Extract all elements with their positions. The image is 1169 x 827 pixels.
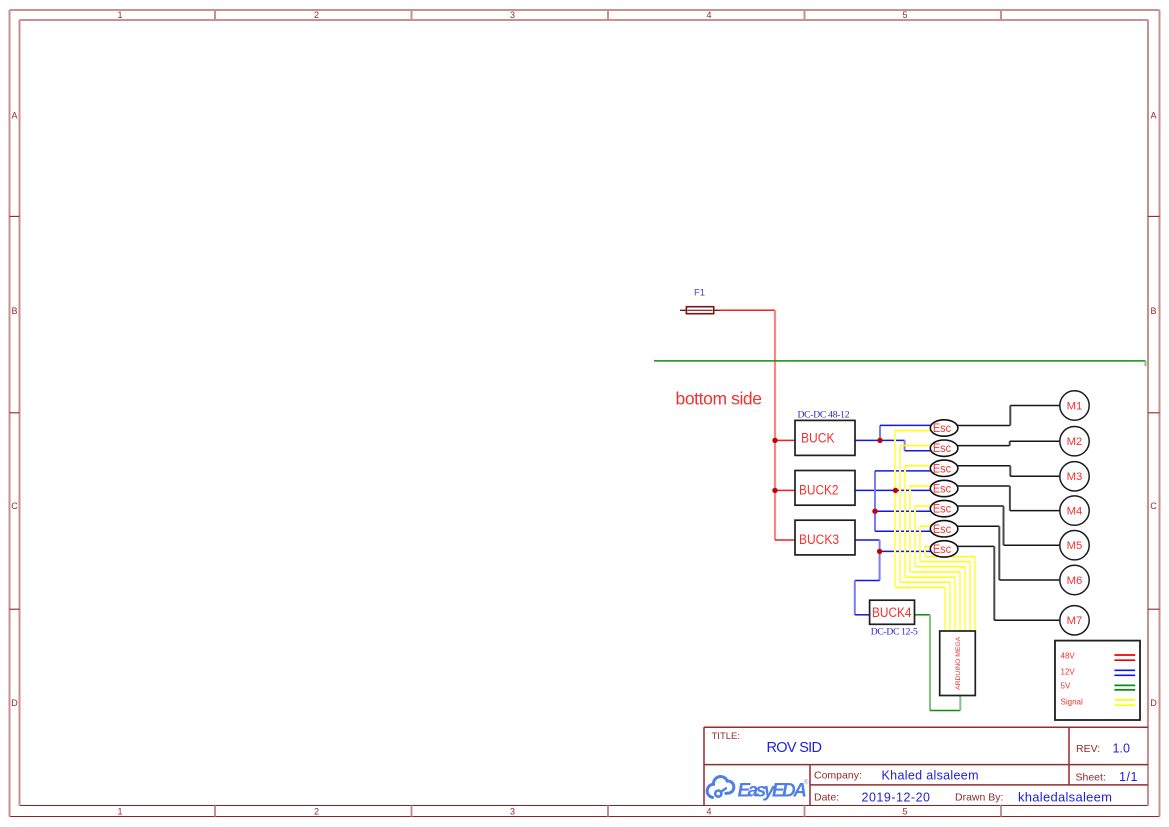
svg-text:Esc: Esc [933, 421, 951, 435]
svg-text:BUCK4: BUCK4 [872, 605, 912, 620]
svg-text:EasyEDA: EasyEDA [738, 781, 808, 802]
svg-text:BUCK2: BUCK2 [799, 483, 839, 498]
motor M7 [1060, 606, 1089, 635]
wire ESC2 to motor M2 [944, 441, 1060, 445]
svg-text:F1: F1 [694, 288, 705, 299]
svg-text:M6: M6 [1067, 575, 1083, 587]
ESC6 [930, 521, 958, 537]
wire signal S2 Arduino to ESC2 [900, 446, 950, 631]
svg-text:M5: M5 [1067, 540, 1083, 552]
converter BUCK4 [870, 600, 915, 624]
svg-text:Esc: Esc [933, 461, 951, 475]
microcontroller ARDUINO MEGA [940, 631, 976, 696]
svg-text:4: 4 [706, 807, 711, 817]
net wire green bus (top side) [654, 361, 1146, 366]
motor M1 [1060, 391, 1089, 420]
legend entry 12V [1061, 668, 1136, 677]
ESC4 [930, 480, 958, 496]
motor M4 [1060, 496, 1089, 525]
wire signal S4 Arduino to ESC4 [910, 486, 960, 631]
wire 12V branch to ESC5 [875, 510, 930, 512]
junction on 48V at BUCK2 input [772, 488, 777, 493]
svg-text:B: B [11, 306, 17, 316]
svg-text:1.0: 1.0 [1113, 742, 1131, 756]
wire 12V BUCK output [855, 439, 880, 441]
svg-text:12V: 12V [1061, 668, 1076, 677]
logo EasyEDA [707, 776, 809, 801]
svg-text:48V: 48V [1061, 652, 1076, 661]
converter BUCK2 [795, 471, 855, 506]
fuse F1 [680, 307, 720, 314]
junction 12V on BUCK2 line [893, 488, 898, 493]
svg-text:2019-12-20: 2019-12-20 [862, 791, 931, 805]
svg-text:1/1: 1/1 [1119, 770, 1138, 784]
svg-text:Signal: Signal [1061, 698, 1083, 707]
ESC2 [930, 440, 958, 456]
junction 12V to ESC7 [877, 549, 882, 554]
svg-text:Esc: Esc [933, 542, 951, 556]
svg-text:REV:: REV: [1076, 743, 1100, 755]
svg-text:Esc: Esc [933, 522, 951, 536]
wire 12V branch to ESC7 [880, 550, 931, 552]
wire ESC7 to motor M7 [944, 546, 1060, 620]
ESC5 [930, 500, 958, 516]
ESC3 [930, 460, 958, 476]
svg-text:Esc: Esc [933, 441, 951, 455]
wire signal S1 Arduino to ESC1 [895, 431, 945, 631]
svg-text:Date:: Date: [814, 792, 839, 804]
wire signal S3 Arduino to ESC3 [905, 466, 955, 631]
svg-text:1: 1 [117, 807, 122, 817]
wire ESC4 to motor M4 [944, 486, 1060, 511]
svg-text:Drawn By:: Drawn By: [955, 792, 1003, 804]
wire 12V down to BUCK4 input [855, 581, 880, 615]
legend entry Signal [1061, 698, 1136, 707]
svg-text:ROV SID: ROV SID [767, 740, 823, 756]
svg-text:M3: M3 [1067, 471, 1083, 483]
wire 12V branch to ESC6 [875, 530, 930, 532]
wire 48V from fuse to corner [720, 309, 776, 311]
wire signal S6 Arduino to ESC6 [920, 526, 970, 631]
svg-text:C: C [11, 501, 18, 511]
wire 12V BUCK2 output to ESC4 [855, 489, 930, 491]
motor M5 [1060, 531, 1089, 560]
wire 48V into BUCK2 [775, 489, 795, 491]
svg-text:D: D [1150, 698, 1157, 708]
wire signal S7 Arduino to ESC7 [925, 546, 975, 631]
svg-text:M1: M1 [1067, 400, 1083, 412]
svg-text:4: 4 [706, 10, 711, 20]
svg-text:BUCK3: BUCK3 [799, 532, 839, 547]
wire ESC1 to motor M1 [944, 406, 1060, 426]
svg-text:TITLE:: TITLE: [712, 731, 741, 742]
svg-text:M7: M7 [1067, 615, 1083, 627]
svg-text:B: B [1150, 306, 1156, 316]
wire ESC6 to motor M6 [944, 526, 1060, 580]
title block [704, 727, 1148, 805]
wire ESC3 to motor M3 [944, 466, 1060, 477]
ESC1 [930, 420, 958, 436]
motor M2 [1060, 427, 1089, 456]
converter BUCK3 [795, 520, 855, 555]
wire 5V BUCK4 output to Arduino [915, 615, 961, 711]
legend box [1055, 641, 1140, 720]
svg-text:3: 3 [510, 10, 515, 20]
wire 48V into BUCK [775, 439, 795, 441]
wire 12V branch to ESC1 [880, 425, 930, 440]
converter BUCK [795, 420, 855, 455]
svg-text:5V: 5V [1061, 682, 1071, 691]
legend entry 48V [1061, 652, 1136, 661]
svg-text:Sheet:: Sheet: [1076, 772, 1106, 784]
junction 12V riser to ESC5 [872, 509, 877, 514]
svg-text:Khaled alsaleem: Khaled alsaleem [882, 769, 979, 783]
wire 12V branch to ESC3 [875, 470, 930, 472]
svg-text:2: 2 [314, 10, 319, 20]
legend entry 5V [1061, 682, 1136, 691]
svg-text:M4: M4 [1067, 506, 1083, 518]
svg-text:5: 5 [902, 807, 907, 817]
svg-text:M2: M2 [1067, 436, 1083, 448]
motor M3 [1060, 462, 1089, 491]
svg-text:BUCK: BUCK [801, 431, 835, 446]
svg-text:DC-DC 12-5: DC-DC 12-5 [871, 627, 918, 638]
wire 48V into BUCK3 [775, 539, 795, 541]
svg-text:C: C [1150, 501, 1157, 511]
svg-text:ARDUINO MEGA: ARDUINO MEGA [955, 636, 962, 690]
wire 12V riser for ESC3/ESC5/ESC6 [874, 471, 876, 531]
svg-text:Company:: Company: [814, 770, 862, 782]
svg-text:3: 3 [510, 807, 515, 817]
junction on 48V at BUCK input [772, 438, 777, 443]
wire 12V branch to ESC2 [880, 440, 930, 450]
svg-text:Esc: Esc [933, 502, 951, 516]
svg-text:®: ® [804, 779, 809, 786]
svg-text:bottom side: bottom side [676, 389, 763, 409]
svg-text:D: D [11, 698, 18, 708]
wire 12V BUCK3 output [855, 540, 880, 581]
svg-text:DC-DC 48-12: DC-DC 48-12 [798, 409, 850, 420]
svg-text:A: A [1150, 111, 1156, 121]
junction 12V at BUCK output [877, 438, 882, 443]
svg-text:2: 2 [314, 807, 319, 817]
title block texts [712, 731, 1138, 805]
svg-text:5: 5 [902, 10, 907, 20]
svg-text:A: A [11, 111, 17, 121]
svg-text:Esc: Esc [933, 482, 951, 496]
svg-text:1: 1 [117, 10, 122, 20]
wire ESC5 to motor M5 [944, 506, 1060, 545]
motor M6 [1060, 565, 1089, 594]
svg-text:khaledalsaleem: khaledalsaleem [1018, 790, 1112, 805]
wire 48V main vertical [774, 310, 776, 540]
wire signal S5 Arduino to ESC5 [915, 506, 965, 631]
ESC7 [930, 541, 958, 557]
